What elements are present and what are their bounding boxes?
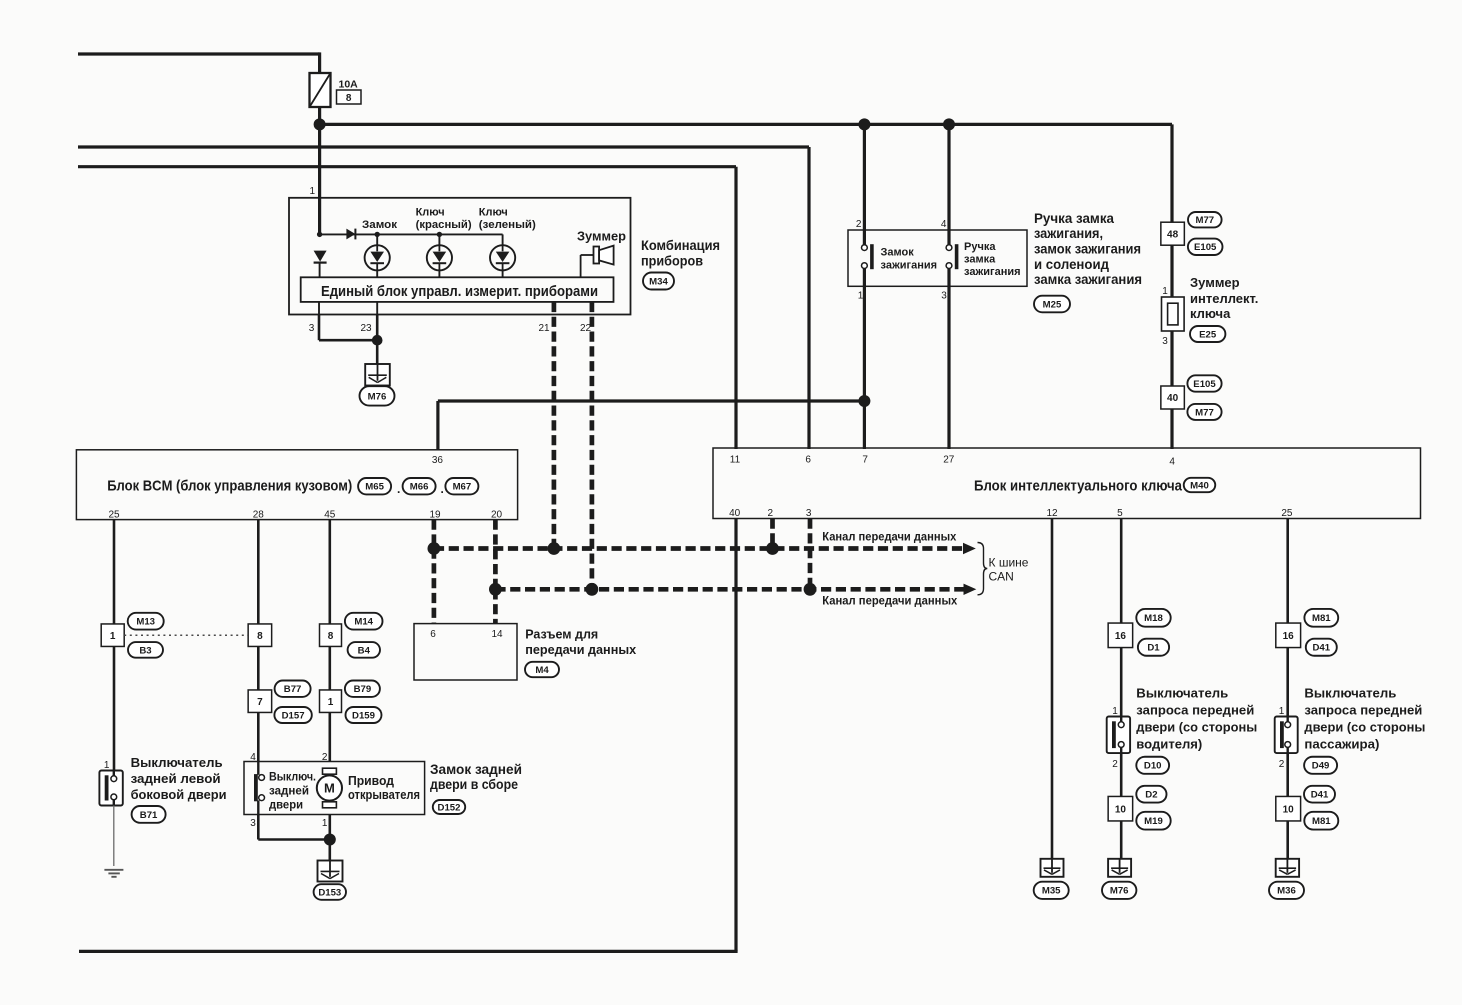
svg-text:двери (со стороны: двери (со стороны xyxy=(1304,720,1425,735)
connector oval M67 xyxy=(445,478,478,494)
svg-text:запроса передней: запроса передней xyxy=(1136,703,1254,718)
power wire top rail to fuse xyxy=(78,52,320,73)
svg-text:водителя): водителя) xyxy=(1136,737,1202,752)
connector oval D49 xyxy=(1304,757,1337,774)
svg-text:M4: M4 xyxy=(535,665,549,676)
wire passenger switch lower xyxy=(1286,753,1289,859)
BCM block outline xyxy=(76,450,517,520)
diode right-pointing in M34 xyxy=(346,229,355,240)
wire power rail down to M25 pin 2 xyxy=(863,124,866,245)
dotted link between connectors xyxy=(124,634,248,636)
ground wire M40 pin 40 long loop xyxy=(79,519,738,952)
label Zummer intellekt klyucha xyxy=(1190,275,1258,321)
svg-text:7: 7 xyxy=(257,697,263,708)
svg-text:.: . xyxy=(441,482,444,496)
pin labels M40 bottom edge xyxy=(729,508,1293,519)
svg-text:10: 10 xyxy=(1115,804,1127,815)
svg-text:B4: B4 xyxy=(358,645,371,656)
svg-text:M35: M35 xyxy=(1042,886,1061,897)
svg-text:B71: B71 xyxy=(140,810,158,821)
power wire y124 to right column xyxy=(320,124,1172,224)
fuse 10A xyxy=(310,73,331,107)
svg-text:4: 4 xyxy=(941,219,947,230)
svg-text:D41: D41 xyxy=(1311,790,1329,801)
svg-text:D153: D153 xyxy=(318,887,341,898)
connector oval D41 top xyxy=(1306,639,1337,656)
svg-text:интеллект.: интеллект. xyxy=(1190,291,1258,306)
ground box D153 xyxy=(318,861,343,882)
wire fuse down to combination meter pin 1 xyxy=(318,107,321,234)
svg-text:M: M xyxy=(324,781,335,796)
svg-text:зажигания,: зажигания, xyxy=(1034,226,1103,241)
connector pin box 48 xyxy=(1161,222,1185,245)
svg-text:D1: D1 xyxy=(1147,643,1160,654)
power wire y167 to intelligent key pin 11 xyxy=(78,167,736,449)
label Vyklyuchatel zadney levoy bokovoy dveri xyxy=(131,755,227,802)
rear door lock block D152 outline xyxy=(244,762,425,815)
ground box M76 under meter xyxy=(365,364,390,386)
svg-text:23: 23 xyxy=(360,323,372,334)
svg-text:Выключатель: Выключатель xyxy=(1304,686,1396,701)
junction dot at fuse branch xyxy=(314,118,326,130)
CAN wire BCM pin 19 down xyxy=(432,520,437,549)
wire BCM pin 28 down xyxy=(257,520,260,624)
svg-text:3: 3 xyxy=(806,508,812,519)
label Razyem dlya peredachi dannykh xyxy=(525,627,637,658)
junction dot M34 internal x320 xyxy=(317,232,322,237)
svg-text:3: 3 xyxy=(941,291,947,302)
svg-text:M76: M76 xyxy=(368,391,387,402)
wire BCM pin 36 up and right to x864 xyxy=(438,401,865,450)
connector oval B3 xyxy=(128,642,163,658)
svg-text:3: 3 xyxy=(1162,336,1168,347)
wire BCM pin 45 down xyxy=(328,520,331,624)
svg-text:замок зажигания: замок зажигания xyxy=(1034,242,1141,257)
svg-text:10A: 10A xyxy=(339,79,359,91)
connector oval M13 xyxy=(128,613,164,630)
CAN wire M40 pin 2 down xyxy=(770,519,775,549)
svg-text:открывателя: открывателя xyxy=(348,788,420,802)
junction dot D152 grounds xyxy=(324,834,336,846)
connector oval M76 meter ground xyxy=(360,386,395,405)
label Zamok zadney dveri v sbore xyxy=(430,762,522,792)
connector oval M66 xyxy=(403,478,436,494)
svg-text:1: 1 xyxy=(1112,706,1118,717)
wire col28 down to rear door lock pin 4 xyxy=(257,713,260,762)
svg-text:1: 1 xyxy=(328,697,334,708)
connector pin box 1 col45 xyxy=(320,690,342,713)
svg-text:D157: D157 xyxy=(282,710,305,721)
connector pin box 16 right xyxy=(1276,623,1301,648)
connector oval D2 xyxy=(1136,786,1166,803)
connector oval D159 xyxy=(346,707,382,723)
svg-text:45: 45 xyxy=(324,510,336,521)
connector pin box 16 left xyxy=(1108,623,1133,648)
svg-text:16: 16 xyxy=(1283,631,1295,642)
unified instrument control unit inner box xyxy=(301,277,614,302)
wire buzzer down to box 40 xyxy=(1170,331,1173,386)
svg-text:8: 8 xyxy=(328,631,334,642)
pin labels M34 bottom xyxy=(309,323,592,334)
LED key green xyxy=(490,245,515,270)
connector oval M14 xyxy=(345,613,383,630)
wire passenger switch upper xyxy=(1286,648,1289,717)
wire col28 boxes xyxy=(257,647,260,691)
internal wire bus in M34 xyxy=(320,233,503,235)
svg-text:2: 2 xyxy=(1279,759,1285,770)
connector oval D1 xyxy=(1138,639,1169,656)
connector oval M76 right xyxy=(1102,882,1136,899)
svg-text:(красный): (красный) xyxy=(416,219,472,231)
svg-text:(зеленый): (зеленый) xyxy=(479,219,536,231)
wire D152 pin 1 down to ground xyxy=(328,815,331,861)
door opener motor symbol xyxy=(317,768,342,808)
connector oval M34 xyxy=(643,273,674,290)
svg-text:6: 6 xyxy=(430,629,436,640)
LED key green indicator xyxy=(502,234,504,245)
svg-text:4: 4 xyxy=(250,752,256,763)
wire M40 pin 25 down xyxy=(1286,519,1289,624)
combination meter block M34 outline xyxy=(289,198,631,315)
svg-text:Замок: Замок xyxy=(881,247,915,259)
svg-text:Ручка: Ручка xyxy=(964,241,996,253)
junction dot power rail x949 xyxy=(943,118,955,130)
junction dots CAN line 2 xyxy=(489,583,816,596)
label K shine CAN xyxy=(989,556,1029,584)
svg-text:1: 1 xyxy=(110,631,116,642)
rear door switch contacts in D152 xyxy=(256,762,265,815)
svg-text:CAN: CAN xyxy=(989,570,1014,584)
wire M25 pin 3 down to intelligent key pin 27 xyxy=(947,268,950,449)
svg-text:28: 28 xyxy=(253,510,265,521)
wire col45 down to rear door lock pin 2 xyxy=(328,713,331,762)
connector pin box 8 col28 xyxy=(248,624,272,647)
connector oval E105 top xyxy=(1188,239,1223,255)
svg-text:Разъем для: Разъем для xyxy=(525,627,598,642)
svg-text:M13: M13 xyxy=(136,617,155,628)
CAN wire BCM pin 20 down xyxy=(493,520,498,590)
label ignition lock handle description xyxy=(1034,211,1142,287)
pin labels D152 bottom xyxy=(250,818,328,829)
connector pin box 10 left xyxy=(1108,796,1133,821)
svg-text:M19: M19 xyxy=(1144,816,1163,827)
connector pin box 10 right xyxy=(1276,796,1301,821)
svg-text:Блок интеллектуального ключа: Блок интеллектуального ключа xyxy=(974,478,1183,495)
svg-text:передачи данных: передачи данных xyxy=(525,642,637,657)
svg-text:боковой двери: боковой двери xyxy=(131,787,227,802)
LED lock indicator xyxy=(376,234,378,245)
connector oval D157 xyxy=(274,707,311,723)
svg-text:1: 1 xyxy=(858,291,864,302)
pin labels D152 top xyxy=(250,752,328,763)
svg-text:Выключатель: Выключатель xyxy=(131,755,223,770)
svg-text:M76: M76 xyxy=(1110,886,1129,897)
LED key red indicator xyxy=(438,234,440,245)
svg-text:Канал передачи данных: Канал передачи данных xyxy=(822,596,958,608)
ground box M36 ground xyxy=(1276,859,1299,877)
svg-text:Замок задней: Замок задней xyxy=(430,762,522,777)
intelligent key buzzer E25 symbol xyxy=(1162,297,1185,331)
svg-text:3: 3 xyxy=(250,818,256,829)
label Privod otkryvatelya xyxy=(348,774,420,802)
connector oval M65 xyxy=(358,478,391,494)
connector pin box 1 left xyxy=(101,624,124,647)
svg-text:двери в сборе: двери в сборе xyxy=(430,777,518,792)
junction dot M34 internal x439 xyxy=(437,232,442,237)
svg-text:задней: задней xyxy=(269,784,309,798)
thin ground wire below B71 xyxy=(113,806,115,867)
svg-text:Комбинация: Комбинация xyxy=(641,237,720,253)
junction dot power rail x864 xyxy=(858,118,870,130)
svg-text:36: 36 xyxy=(432,455,444,466)
connector oval M35 xyxy=(1034,882,1069,899)
connector oval M4 xyxy=(525,662,559,677)
CAN bus line 2 arrowhead xyxy=(964,584,977,595)
connector pin box 40 xyxy=(1161,386,1185,409)
svg-text:M34: M34 xyxy=(649,276,668,287)
svg-text:M40: M40 xyxy=(1190,480,1209,491)
junction dot ground wires xyxy=(372,335,383,346)
svg-text:M65: M65 xyxy=(365,482,384,493)
connector oval B4 xyxy=(348,642,380,658)
svg-text:2: 2 xyxy=(856,219,862,230)
wire BCM pin 25 down xyxy=(113,520,116,624)
svg-text:M81: M81 xyxy=(1312,613,1331,624)
label Kluch zeleny LED3 xyxy=(479,207,536,231)
svg-text:16: 16 xyxy=(1115,631,1127,642)
junction dot M34 internal x377 xyxy=(375,232,380,237)
CAN brace bracket xyxy=(978,543,988,595)
pin labels M25 top xyxy=(856,219,947,230)
connector oval M18 xyxy=(1136,609,1170,627)
wire M40 pin 12 down to ground xyxy=(1051,519,1054,859)
ignition lock block M25 outline xyxy=(848,230,1027,286)
wire driver switch upper xyxy=(1120,648,1123,717)
svg-text:D159: D159 xyxy=(352,710,375,721)
svg-text:5: 5 xyxy=(1117,508,1123,519)
svg-text:пассажира): пассажира) xyxy=(1304,737,1379,752)
label driver door request switch xyxy=(1136,686,1257,752)
connector oval E25 xyxy=(1190,326,1225,342)
svg-text:Единый блок управл. измерит. п: Единый блок управл. измерит. приборами xyxy=(321,283,598,300)
CAN wire from M34 pin 21 down xyxy=(552,302,557,549)
svg-text:зажигания: зажигания xyxy=(881,260,938,272)
ignition switch contact 2 xyxy=(946,244,957,269)
svg-text:D10: D10 xyxy=(1144,761,1162,772)
svg-text:6: 6 xyxy=(805,455,811,466)
wire M25 pin 1 down to intelligent key pin 7 xyxy=(863,268,866,449)
CAN wire M40 pin 3 down xyxy=(808,519,813,590)
wire power rail down to M25 pin 4 xyxy=(947,124,950,245)
connector oval E105 bottom xyxy=(1187,375,1221,391)
svg-text:двери (со стороны: двери (со стороны xyxy=(1136,720,1257,735)
svg-text:Зуммер: Зуммер xyxy=(577,229,626,244)
LED lock xyxy=(365,245,390,270)
pin labels M25 bottom xyxy=(858,291,948,302)
svg-text:M66: M66 xyxy=(410,482,429,493)
svg-text:M67: M67 xyxy=(453,482,472,493)
wire M34 pin 23 down to ground xyxy=(376,315,379,382)
door switch symbol driver request xyxy=(1107,717,1130,754)
power wire y147 to intelligent key pin 6 xyxy=(78,147,809,449)
svg-text:M77: M77 xyxy=(1195,215,1214,226)
connector oval M25 xyxy=(1034,296,1070,313)
svg-text:Ключ: Ключ xyxy=(416,207,445,219)
svg-text:M18: M18 xyxy=(1144,613,1163,624)
svg-text:48: 48 xyxy=(1167,229,1179,240)
svg-text:E105: E105 xyxy=(1193,379,1216,390)
svg-text:E105: E105 xyxy=(1194,242,1217,253)
svg-text:К шине: К шине xyxy=(989,556,1029,570)
pin labels BCM bottom edge xyxy=(108,510,502,521)
svg-text:11: 11 xyxy=(730,455,741,466)
label Kluch krasny LED2 xyxy=(416,207,472,231)
wire col45 boxes xyxy=(328,647,331,691)
LED key red xyxy=(427,245,452,270)
CAN wire down to data link pin 14 xyxy=(493,589,498,623)
svg-text:21: 21 xyxy=(538,323,550,334)
svg-text:ключа: ключа xyxy=(1190,306,1231,321)
svg-text:7: 7 xyxy=(862,455,868,466)
svg-text:Канал передачи данных: Канал передачи данных xyxy=(822,532,957,544)
svg-text:D152: D152 xyxy=(438,802,461,813)
svg-text:14: 14 xyxy=(491,629,503,640)
svg-text:1: 1 xyxy=(309,186,315,197)
CAN wire from M34 pin 22 down xyxy=(590,302,595,589)
intelligent key unit block M40 outline xyxy=(713,448,1421,519)
svg-text:E25: E25 xyxy=(1199,329,1217,340)
svg-text:M25: M25 xyxy=(1043,299,1062,310)
svg-text:2: 2 xyxy=(322,752,328,763)
svg-text:B79: B79 xyxy=(354,684,372,695)
svg-text:Ручка замка: Ручка замка xyxy=(1034,211,1114,226)
svg-text:зажигания: зажигания xyxy=(964,266,1021,278)
connector oval M19 xyxy=(1136,812,1170,830)
wire M40 pin 5 down xyxy=(1120,519,1123,624)
diode down at x320 in M34 xyxy=(314,251,327,278)
connector oval M40 xyxy=(1184,478,1216,492)
fuse number box 8 xyxy=(337,90,362,104)
svg-text:B3: B3 xyxy=(139,645,151,656)
pin labels M40 top edge xyxy=(730,455,1176,468)
data link connector M4 box xyxy=(414,624,517,680)
CAN bus line 2 xyxy=(495,587,964,592)
wire connector down to door switch B71 xyxy=(113,647,116,771)
svg-text:25: 25 xyxy=(108,510,120,521)
door switch symbol B71 xyxy=(99,771,122,806)
connector oval B71 xyxy=(132,806,166,823)
svg-text:10: 10 xyxy=(1283,804,1295,815)
svg-text:запроса передней: запроса передней xyxy=(1304,703,1422,718)
svg-text:2: 2 xyxy=(768,508,774,519)
svg-text:Блок BCM (блок управления кузо: Блок BCM (блок управления кузовом) xyxy=(107,478,352,495)
pin labels M4 xyxy=(430,629,503,640)
connector oval D153 xyxy=(314,884,346,900)
connector oval M36 xyxy=(1269,882,1304,899)
svg-text:20: 20 xyxy=(491,510,503,521)
svg-text:1: 1 xyxy=(1162,286,1168,297)
CAN bus line 1 xyxy=(434,546,964,551)
svg-text:27: 27 xyxy=(943,455,955,466)
svg-text:25: 25 xyxy=(1281,508,1293,519)
svg-text:Привод: Привод xyxy=(348,774,394,788)
connector oval M81 top xyxy=(1304,609,1338,627)
ground box M76 ground right xyxy=(1108,859,1131,877)
svg-text:Зуммер: Зуммер xyxy=(1190,275,1240,290)
svg-text:.: . xyxy=(397,482,400,496)
door switch symbol passenger request xyxy=(1275,717,1298,754)
svg-text:3: 3 xyxy=(309,323,315,334)
svg-text:Выключатель: Выключатель xyxy=(1136,686,1228,701)
connector oval D152 xyxy=(433,800,465,814)
svg-text:1: 1 xyxy=(1279,706,1285,717)
svg-text:12: 12 xyxy=(1046,508,1058,519)
svg-text:B77: B77 xyxy=(284,684,302,695)
label Zamok zazhiganiya xyxy=(881,247,938,272)
svg-text:двери: двери xyxy=(269,798,303,812)
svg-text:8: 8 xyxy=(346,93,352,104)
connector oval D41 bottom xyxy=(1304,786,1335,803)
svg-text:40: 40 xyxy=(1167,393,1179,404)
svg-text:1: 1 xyxy=(322,818,328,829)
svg-text:2: 2 xyxy=(1112,759,1118,770)
svg-text:приборов: приборов xyxy=(641,253,703,269)
label Vyklyuch zadney dveri xyxy=(269,770,316,812)
junction dot x864 y401 xyxy=(858,395,870,407)
svg-text:D41: D41 xyxy=(1312,643,1330,654)
svg-text:Замок: Замок xyxy=(362,219,398,231)
connector oval M77 top xyxy=(1188,212,1222,227)
label Kombinatsiya priborov xyxy=(641,237,720,269)
connector pin box 7 col28 xyxy=(248,690,272,713)
svg-text:M14: M14 xyxy=(354,617,373,628)
ground box M35 ground xyxy=(1041,859,1064,877)
buzzer symbol in M34 xyxy=(581,246,614,278)
label passenger door request switch xyxy=(1304,686,1425,752)
svg-text:1: 1 xyxy=(104,760,110,771)
chassis ground symbol B71 xyxy=(104,870,123,877)
wire box48 down to buzzer E25 xyxy=(1170,245,1173,297)
svg-text:4: 4 xyxy=(1169,457,1175,468)
connector oval B77 xyxy=(275,681,311,697)
svg-text:Ключ: Ключ xyxy=(479,207,508,219)
wire D152 pin 3 to ground junction xyxy=(258,815,330,840)
svg-text:M77: M77 xyxy=(1195,407,1214,418)
svg-text:задней левой: задней левой xyxy=(131,771,221,786)
connector pin box 8 col45 xyxy=(320,624,342,647)
svg-text:19: 19 xyxy=(429,510,441,521)
svg-text:Выключ.: Выключ. xyxy=(269,770,316,784)
svg-text:M81: M81 xyxy=(1312,816,1331,827)
connector oval M81 bottom xyxy=(1304,812,1338,830)
connector oval M77 bottom xyxy=(1187,404,1221,420)
connector oval D10 xyxy=(1136,757,1169,774)
wire driver switch lower xyxy=(1120,753,1123,859)
svg-text:замка зажигания: замка зажигания xyxy=(1034,272,1142,287)
svg-text:M36: M36 xyxy=(1277,886,1296,897)
M34 pin stubs bottom xyxy=(319,302,377,315)
svg-text:8: 8 xyxy=(257,631,263,642)
svg-text:замка: замка xyxy=(964,254,996,266)
svg-text:D2: D2 xyxy=(1145,790,1157,801)
svg-text:D49: D49 xyxy=(1312,761,1330,772)
connector oval B79 xyxy=(345,681,380,697)
junction dots CAN line 1 xyxy=(428,542,779,555)
CAN bus line 1 arrowhead xyxy=(963,543,976,554)
svg-text:40: 40 xyxy=(729,508,741,519)
wire M34 pin 3 to ground junction xyxy=(319,315,377,341)
svg-text:и соленоид: и соленоид xyxy=(1034,257,1109,272)
